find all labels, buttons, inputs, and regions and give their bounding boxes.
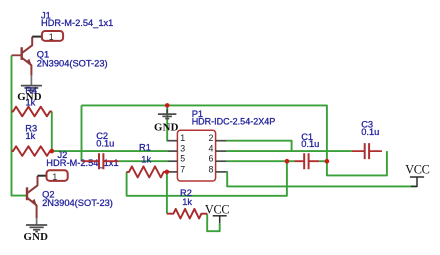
connector P1 pin numbers: [180, 133, 213, 174]
svg-text:HDR-M-2.54_1x1: HDR-M-2.54_1x1: [46, 158, 118, 168]
power VCC (R2): [213, 216, 227, 223]
svg-text:4: 4: [208, 144, 213, 154]
wire R1 left loop to C1 node: [127, 161, 287, 196]
connector P1 pin stubs left: [167, 141, 177, 172]
svg-text:VCC: VCC: [205, 203, 229, 217]
resistor R2: [167, 209, 207, 219]
ground (P1 pin1 net): [158, 109, 177, 118]
svg-text:VCC: VCC: [405, 163, 429, 177]
node junction on top rail (GND net): [165, 103, 170, 108]
svg-text:2N3904(SOT-23): 2N3904(SOT-23): [42, 198, 113, 208]
svg-text:1: 1: [52, 172, 57, 182]
wire C2 top drop: [81, 105, 83, 161]
wire pin 4 to C3 left: [226, 150, 351, 152]
svg-text:1: 1: [180, 133, 185, 143]
svg-text:8: 8: [208, 164, 213, 174]
transistor Q1: [12, 37, 33, 76]
node junction C1 left: [285, 159, 290, 164]
wire pin 8 to VCC right: [226, 172, 417, 187]
svg-text:GND: GND: [17, 91, 42, 103]
svg-text:2N3904(SOT-23): 2N3904(SOT-23): [37, 58, 108, 68]
svg-text:1: 1: [49, 32, 54, 42]
svg-text:1k: 1k: [182, 197, 192, 207]
capacitor C2: [82, 153, 119, 169]
node junction C1 right: [325, 159, 330, 164]
svg-text:HDR-IDC-2.54-2X4P: HDR-IDC-2.54-2X4P: [192, 117, 276, 127]
wire R1 node down to R2: [166, 172, 168, 214]
connector P1 pin stubs right: [216, 141, 227, 172]
resistor R4 (label hidden behind GND): [12, 107, 52, 117]
resistor R1: [127, 166, 167, 177]
wire C1 left green: [287, 160, 294, 162]
svg-text:GND: GND: [154, 122, 179, 134]
node junction R1/pin7: [165, 170, 170, 175]
resistor R3: [12, 146, 52, 156]
svg-text:6: 6: [208, 154, 213, 164]
wire top rail and right drop to C3: [82, 105, 387, 175]
svg-text:2: 2: [208, 133, 213, 143]
wire left rail (Q1 base / R4 / R3 / Q2 base): [12, 55, 27, 195]
capacitor C3: [352, 143, 382, 159]
node junction R3/R4: [50, 149, 55, 154]
wire pin 6 to C1 left: [226, 160, 287, 162]
capacitor C1: [294, 153, 319, 169]
wire pin 2 over to pin4 net: [226, 141, 291, 151]
svg-text:3: 3: [180, 144, 185, 154]
svg-text:5: 5: [180, 154, 185, 164]
svg-text:0.1u: 0.1u: [361, 127, 379, 137]
connector P1 box: [177, 130, 215, 181]
wire R2 right to VCC left: [207, 214, 220, 232]
svg-text:0.1u: 0.1u: [301, 139, 319, 149]
wire node A to pin 3: [52, 150, 168, 152]
svg-text:R1: R1: [139, 143, 151, 153]
wire C2 right to pin 5: [119, 160, 168, 162]
svg-text:GND: GND: [24, 231, 49, 243]
svg-text:0.1u: 0.1u: [96, 138, 114, 148]
svg-text:1k: 1k: [26, 131, 36, 141]
wire R4 right to node A: [51, 112, 53, 152]
svg-text:HDR-M-2.54_1x1: HDR-M-2.54_1x1: [41, 18, 113, 28]
header J2: [47, 170, 68, 181]
ground (Q2 emitter): [26, 218, 47, 231]
svg-text:1k: 1k: [141, 154, 151, 164]
wire Q2 collector to J2 (pin line): [38, 175, 47, 177]
ground (Q1 emitter): [21, 75, 42, 92]
wire Q1 collector to J1 (pin line): [32, 36, 42, 38]
wire GND drop to pin 1: [166, 105, 168, 140]
power VCC (right): [410, 177, 424, 186]
svg-text:7: 7: [180, 164, 185, 174]
transistor Q2: [27, 176, 38, 218]
header J1: [42, 31, 63, 41]
wire C1 right green: [319, 160, 327, 162]
